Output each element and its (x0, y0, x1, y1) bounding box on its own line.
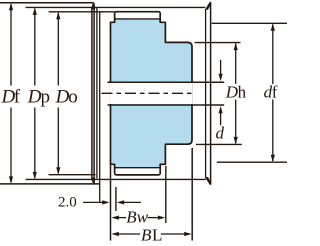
left flange plate inner line (93, 3, 95, 183)
Dp bottom extension line (26, 178, 206, 180)
right flange top chamfer (205, 1, 212, 9)
Dp dimension line (33, 8, 37, 180)
Dh bottom extension line (196, 143, 242, 145)
Dh top extension line (195, 42, 241, 44)
svg-text:o: o (68, 87, 78, 108)
BL dimension line (111, 232, 191, 236)
svg-text:p: p (41, 87, 51, 108)
Do top extension line (49, 11, 115, 13)
tooth root line bottom (115, 167, 161, 169)
Dp top extension line (26, 6, 206, 8)
tooth band white strip top (116, 13, 160, 19)
left auxiliary line 4 (99, 12, 101, 203)
2.0 dimension (83, 200, 141, 204)
svg-text:f: f (14, 87, 21, 108)
svg-text:B: B (126, 207, 137, 226)
right flange plate inner line (205, 9, 207, 178)
right flange plate outer line (210, 2, 212, 184)
df bottom extension line (217, 161, 287, 163)
Dh dimension line (234, 43, 238, 145)
df top extension line (212, 22, 287, 24)
left flange bottom tip (91, 178, 95, 186)
bore white band (110, 83, 193, 104)
svg-text:w: w (137, 207, 149, 226)
Bw right extension line (165, 166, 167, 223)
df dimension line (271, 23, 275, 162)
BL right extension line (hub face) (191, 148, 193, 241)
svg-text:B: B (141, 225, 152, 244)
Bw dimension line (111, 216, 165, 220)
svg-text:h: h (238, 83, 247, 102)
Df dimension line (9, 3, 13, 184)
bore bottom line (108, 104, 225, 106)
left flange plate outer line (91, 8, 93, 179)
Df top extension line (0, 2, 94, 4)
left flange top tip (91, 1, 95, 9)
bore top line (108, 81, 225, 83)
d dimension (bore) arrows (219, 60, 223, 125)
center line dash-dot (102, 92, 195, 94)
pulley body cross-section (blue) (111, 12, 193, 175)
Do bottom extension line (49, 174, 96, 176)
tooth band white strip bottom (116, 168, 160, 174)
svg-text:d: d (216, 124, 225, 143)
svg-text:L: L (152, 225, 162, 244)
left auxiliary line 3 (96, 7, 98, 178)
tooth root line top (115, 18, 161, 20)
Do dimension line (56, 12, 60, 175)
Df bottom extension line (0, 183, 100, 185)
bottom left long extension line (body face) (110, 165, 112, 241)
2.0 right tick (115, 187, 117, 211)
right flange bottom chamfer (205, 177, 212, 185)
svg-text:f: f (272, 83, 278, 102)
svg-text:2.0: 2.0 (58, 195, 77, 211)
